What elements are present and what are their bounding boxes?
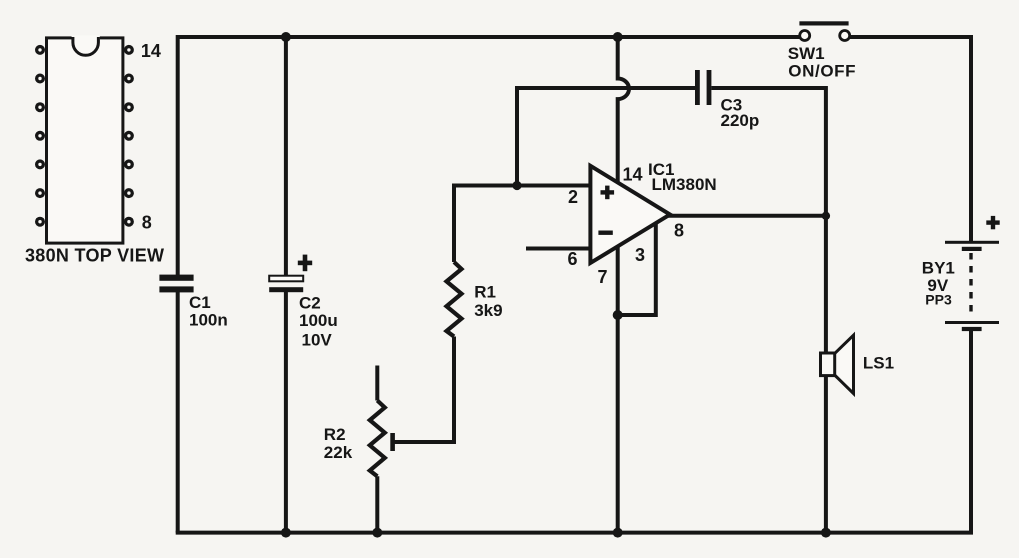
resistor R1 zigzag — [447, 262, 462, 336]
svg-text:14: 14 — [623, 165, 643, 185]
svg-text:C2: C2 — [299, 294, 321, 313]
op-amp - input symbol — [598, 231, 612, 235]
battery BY1 top cell long plate — [945, 241, 999, 244]
switch SW1 right contact — [840, 31, 850, 41]
svg-text:220p: 220p — [721, 111, 760, 130]
svg-text:8: 8 — [674, 221, 684, 241]
potentiometer R2 zigzag — [370, 401, 385, 477]
svg-text:3k9: 3k9 — [474, 301, 502, 320]
svg-text:2: 2 — [568, 187, 578, 207]
junction dot: C3 at output — [822, 212, 830, 220]
wire: R1 lower lead to wiper — [392, 337, 455, 443]
junction dot: speaker at bottom rail — [821, 528, 831, 538]
capacitor C2 plates (electrolytic: hollow + plate, solid - plate) — [269, 276, 303, 293]
wire: pin 3 to pin 7 junction — [618, 224, 656, 315]
wire: pin 7 lead down to bottom rail — [616, 246, 620, 533]
svg-text:7: 7 — [598, 267, 608, 287]
svg-text:8: 8 — [142, 213, 152, 233]
op-amp IC1 triangle — [590, 166, 670, 263]
svg-text:SW1: SW1 — [788, 44, 825, 63]
svg-text:R2: R2 — [324, 425, 346, 444]
IC package pins left — [35, 45, 45, 227]
svg-text:22k: 22k — [324, 443, 353, 462]
wire: R2 upper lead (open input stub) — [375, 366, 379, 401]
wire: inverting input pin 6 (open stub) — [526, 247, 592, 251]
wire: C1 lower lead — [176, 292, 180, 533]
battery BY1 bottom cell long plate — [945, 321, 999, 324]
wire: bottom rail — [176, 531, 973, 535]
svg-text:10V: 10V — [302, 330, 333, 349]
IC package pins right — [124, 45, 134, 227]
junction dot: C2 at top rail — [281, 32, 291, 42]
junction dot: pin3/pin7 — [613, 310, 623, 320]
svg-text:3: 3 — [635, 245, 645, 265]
battery BY1 dashed middle — [969, 253, 972, 318]
wire: C2 upper lead — [284, 37, 288, 277]
svg-text:100n: 100n — [189, 310, 228, 329]
wire: op-amp output pin 8 — [668, 214, 826, 218]
svg-text:14: 14 — [141, 41, 161, 61]
op-amp + input symbol — [601, 186, 615, 200]
battery BY1 bottom cell short plate — [962, 327, 982, 331]
svg-text:BY1: BY1 — [922, 258, 955, 277]
svg-text:100u: 100u — [299, 311, 338, 330]
wire: non-inverting input pin 2 with lead down to R1 — [454, 186, 590, 263]
wire: output node down through speaker to bottom rail — [824, 216, 828, 533]
wire: C1 upper lead + top rail left segment — [178, 37, 800, 276]
switch SW1 left contact — [800, 31, 810, 41]
svg-text:C1: C1 — [189, 293, 211, 312]
IC package body 380N top view — [47, 38, 123, 243]
switch SW1 bar — [799, 21, 848, 25]
wire: C3 right plate to output node — [711, 88, 826, 216]
wire: C2 lower lead — [284, 292, 288, 533]
speaker LS1 horn — [835, 335, 854, 393]
svg-text:LS1: LS1 — [863, 354, 894, 373]
junction dot: feedback at + input — [512, 181, 521, 190]
junction dot: pin14 line at top rail — [613, 32, 623, 42]
capacitor C3 plates — [695, 70, 711, 105]
battery BY1 top cell short plate — [962, 247, 982, 251]
battery BY1 polarity + — [986, 216, 999, 229]
wire: supply line pin 14 with hop over feedback wire — [618, 37, 629, 183]
svg-text:LM380N: LM380N — [652, 175, 717, 194]
wire: top rail right segment + right rail to battery — [850, 37, 971, 242]
junction dot: R2 at bottom rail — [372, 528, 382, 538]
wire: battery negative lead to bottom rail — [969, 331, 973, 533]
svg-text:ON/OFF: ON/OFF — [788, 62, 856, 81]
speaker LS1 driver box — [821, 353, 835, 376]
IC package notch — [72, 35, 100, 40]
capacitor C1 plates — [159, 275, 193, 293]
wire: feedback from + input node up and right to C3 — [517, 88, 695, 186]
svg-text:R1: R1 — [474, 283, 496, 302]
svg-text:380N TOP VIEW: 380N TOP VIEW — [25, 246, 164, 266]
junction dot: pin7 at bottom rail — [613, 528, 623, 538]
capacitor C2 polarity + — [298, 255, 312, 272]
junction dot: C2 at bottom rail — [281, 528, 291, 538]
wire: R2 lower lead to bottom rail — [375, 476, 379, 532]
svg-text:6: 6 — [568, 249, 578, 269]
svg-text:PP3: PP3 — [925, 292, 952, 308]
potentiometer R2 wiper T-bar — [390, 433, 395, 451]
